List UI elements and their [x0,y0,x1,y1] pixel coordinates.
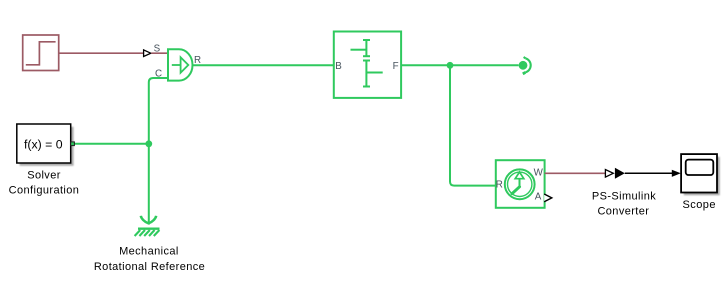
svg-text:Rotational Reference: Rotational Reference [94,261,205,273]
scope block [681,154,717,192]
arrowhead into scope [672,170,681,177]
svg-text:W: W [534,168,544,179]
wire R output to clutch B [193,64,334,66]
label Solver Configuration [9,170,80,197]
svg-text:Scope: Scope [682,199,715,211]
svg-text:F: F [393,61,399,72]
wire W to PS-Simulink converter [545,172,606,174]
wire clutch F to inertia [401,64,518,66]
wire Step to S port [59,52,144,54]
svg-text:PS-Simulink: PS-Simulink [592,190,656,202]
junction node on main wire [447,62,454,69]
svg-text:R: R [496,180,503,191]
scope block shadow [684,157,720,196]
svg-text:Mechanical: Mechanical [119,246,179,258]
port arrow A unconnected [544,194,552,202]
label PS-Simulink Converter [592,190,656,217]
solver port square [71,142,75,146]
svg-text:Solver: Solver [27,170,61,182]
wire solver to junction [74,143,149,145]
op-amp-shaped Simulink-PS Converter block [168,49,193,80]
step source block Step [23,35,59,71]
port arrow S input [144,50,151,57]
friction clutch block [334,32,401,98]
wire stub into converter [151,52,168,54]
svg-text:A: A [535,192,542,203]
label Mechanical Rotational Reference [94,246,205,273]
PS-Simulink converter block triangle [615,168,625,179]
mechanical rotational reference symbol [135,229,160,236]
ideal rotational motion sensor block [496,160,545,208]
junction node near solver [145,140,152,147]
wire junction down to sensor R [450,65,496,185]
svg-text:S: S [154,43,161,54]
inertia terminator circle [519,57,531,74]
svg-text:f(x) = 0: f(x) = 0 [24,137,63,151]
solver configuration block shadow [20,127,74,166]
svg-text:R: R [194,55,201,66]
ground arrow into mechanical rotational reference [141,216,156,223]
port arrow PS input [605,170,613,178]
solver configuration block f(x)=0 [17,124,71,163]
svg-text:Converter: Converter [597,205,649,217]
svg-text:B: B [335,61,342,72]
wire C port down to junction and ground [149,78,168,225]
signal wire converter to scope [625,172,672,174]
svg-text:Configuration: Configuration [9,184,80,196]
